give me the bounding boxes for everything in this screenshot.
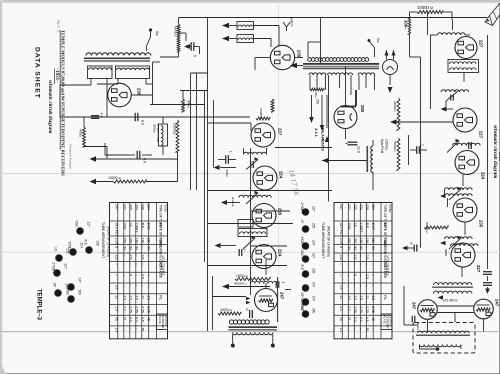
svg-text:–: – bbox=[353, 285, 357, 287]
svg-text:250: 250 bbox=[129, 238, 133, 244]
label DATA SHEET bbox=[34, 47, 41, 99]
svg-text:190: 190 bbox=[359, 238, 363, 244]
svg-text:8.0: 8.0 bbox=[143, 158, 147, 163]
fold crease horizontal 3 / page edge bbox=[0, 331, 500, 333]
svg-text:TEMPLE MODELS 87,88,89 and 94: TEMPLE MODELS 87,88,89 and 94 SUPERHETER… bbox=[61, 30, 66, 176]
svg-text:5: 5 bbox=[353, 274, 357, 276]
capacitor C14 bbox=[412, 316, 420, 331]
T2 secondary a bbox=[309, 73, 326, 75]
tube V4 224 bbox=[253, 166, 284, 190]
svg-text:20000 ω: 20000 ω bbox=[220, 308, 233, 312]
T2 secondary c bbox=[358, 73, 375, 75]
wire bus x250 bbox=[250, 148, 252, 295]
svg-text:10 WATT FUSE: 10 WATT FUSE bbox=[156, 124, 160, 143]
capacitor C5 1. bbox=[218, 151, 236, 164]
svg-text:DATA SHEET: DATA SHEET bbox=[34, 47, 41, 99]
scanner edge top bbox=[0, 0, 500, 3]
speaker winding bbox=[420, 345, 461, 351]
svg-text:•25 MEG: •25 MEG bbox=[443, 299, 458, 303]
svg-text:–: – bbox=[365, 246, 369, 248]
fold crease horizontal 1 bbox=[2, 173, 500, 175]
wire bus x330 bbox=[321, 18, 329, 202]
svg-text:TUBE: TUBE bbox=[164, 204, 168, 212]
wire V8 top thick bbox=[341, 90, 356, 107]
svg-text:235: 235 bbox=[312, 223, 316, 229]
svg-text:2.35: 2.35 bbox=[135, 306, 139, 313]
IF transformer IF3 bbox=[440, 237, 478, 246]
svg-text:259: 259 bbox=[316, 99, 320, 105]
svg-text:235: 235 bbox=[66, 249, 70, 255]
svg-text:I.F.: I.F. bbox=[353, 223, 357, 227]
svg-text:8: 8 bbox=[114, 246, 118, 248]
resistor R7 15000w bbox=[235, 274, 270, 281]
svg-text:280: 280 bbox=[312, 308, 316, 314]
coil L1 primary bbox=[86, 53, 151, 56]
svg-text:227: 227 bbox=[476, 265, 481, 273]
svg-text:224: 224 bbox=[135, 204, 139, 210]
svg-text:B’ST: B’ST bbox=[371, 223, 375, 230]
svg-text:–: – bbox=[347, 274, 351, 276]
choke electrolytic 2000w bbox=[153, 124, 168, 146]
svg-text:–: – bbox=[123, 263, 127, 265]
svg-text:.1: .1 bbox=[421, 143, 425, 146]
svg-text:224: 224 bbox=[279, 171, 284, 179]
svg-text:–: – bbox=[114, 274, 118, 276]
svg-text:OUTPUT: OUTPUT bbox=[389, 316, 393, 327]
svg-text:TEMPLE–3: TEMPLE–3 bbox=[36, 289, 42, 321]
trimmer VC3 bbox=[449, 236, 462, 249]
table 1 grid (tube voltages) bbox=[110, 203, 168, 339]
wire T4 right rail bbox=[277, 277, 279, 322]
svg-text:227: 227 bbox=[312, 253, 316, 259]
svg-text:GRID: GRID bbox=[383, 246, 387, 255]
svg-text:1ⁱᵗDET: 1ⁱᵗDET bbox=[359, 223, 364, 233]
svg-text:500ω: 500ω bbox=[225, 170, 229, 178]
handwritten model number bbox=[56, 19, 61, 33]
wire bus x430 bbox=[430, 35, 432, 109]
resistor R5 volume 50000w bbox=[174, 24, 180, 52]
svg-text:–: – bbox=[359, 263, 363, 265]
svg-text:Switch: Switch bbox=[290, 17, 294, 27]
svg-text:30ω: 30ω bbox=[314, 92, 318, 98]
svg-text:2.05: 2.05 bbox=[339, 238, 343, 245]
tube V11 224 bbox=[455, 151, 486, 180]
svg-text:227: 227 bbox=[64, 264, 68, 270]
svg-text:–: – bbox=[347, 328, 351, 330]
svg-text:–: – bbox=[339, 274, 343, 276]
wire V1 plate right bbox=[131, 94, 152, 96]
coil L2 secondary box bbox=[88, 66, 113, 79]
svg-text:2.35: 2.35 bbox=[147, 306, 151, 313]
resistor R2 15000w bottom-left bbox=[90, 176, 178, 184]
trimmer VC2 bbox=[449, 187, 462, 200]
svg-text:REC: REC bbox=[66, 289, 70, 296]
svg-text:224: 224 bbox=[481, 172, 486, 180]
tube V3 227 bbox=[251, 123, 283, 147]
scanner corner bottom-left bbox=[0, 362, 6, 374]
filament rail bottom bbox=[437, 312, 473, 314]
antenna Y bbox=[283, 17, 294, 31]
wire y123 to V3 bbox=[208, 123, 252, 131]
field coil FC bbox=[371, 140, 373, 178]
wire T2 top left bbox=[308, 42, 320, 57]
label spkr field bbox=[380, 139, 389, 153]
svg-text:50000ω: 50000ω bbox=[425, 222, 429, 233]
svg-text:227: 227 bbox=[479, 131, 484, 139]
choke box CB1 bbox=[237, 22, 254, 30]
capacitor C3 8.0 bbox=[128, 151, 152, 163]
svg-text:A L L: A L L bbox=[314, 128, 319, 138]
svg-text:247: 247 bbox=[495, 299, 500, 307]
capacitor C13 .1 bbox=[410, 143, 427, 154]
svg-text:90: 90 bbox=[135, 246, 139, 250]
tube V5 235 bbox=[252, 204, 283, 228]
ground arrow G3 bbox=[215, 243, 237, 248]
svg-text:45: 45 bbox=[114, 317, 118, 321]
svg-text:–: – bbox=[371, 285, 375, 287]
svg-text:–: – bbox=[135, 274, 139, 276]
coil L11 with trimmer bbox=[447, 139, 480, 153]
svg-text:235: 235 bbox=[297, 50, 302, 58]
svg-text:2.2: 2.2 bbox=[347, 306, 351, 311]
wire grid lead tube V1 bbox=[106, 86, 108, 117]
svg-text:235: 235 bbox=[353, 204, 357, 210]
svg-text:2.5: 2.5 bbox=[141, 255, 145, 260]
wire y289 bbox=[285, 289, 291, 291]
svg-text:210: 210 bbox=[114, 255, 118, 261]
wire bus x202 bbox=[204, 91, 206, 263]
tube V7 247 bbox=[255, 289, 285, 312]
power transformer T2 arrow bbox=[290, 63, 303, 68]
svg-text:90: 90 bbox=[129, 246, 133, 250]
svg-text:8.0: 8.0 bbox=[141, 120, 145, 125]
svg-text:190: 190 bbox=[365, 238, 369, 244]
svg-text:I.F.: I.F. bbox=[129, 223, 133, 227]
svg-text:90: 90 bbox=[147, 246, 151, 250]
wire y160b bbox=[372, 178, 374, 190]
tube V9 227 bbox=[455, 37, 484, 59]
svg-text:–: – bbox=[141, 285, 145, 287]
svg-text:45: 45 bbox=[147, 317, 151, 321]
svg-text:247: 247 bbox=[78, 278, 82, 284]
pilot lamp ground bbox=[388, 75, 393, 94]
coil L7 bbox=[238, 229, 267, 250]
svg-text:2.5: 2.5 bbox=[339, 306, 343, 311]
wire R4 bottom bbox=[177, 152, 179, 182]
svg-text:227: 227 bbox=[87, 222, 91, 228]
svg-text:90: 90 bbox=[347, 246, 351, 250]
svg-text:2.35: 2.35 bbox=[365, 306, 369, 313]
svg-text:190: 190 bbox=[141, 238, 145, 244]
filament rail top bbox=[437, 305, 473, 307]
svg-text:9.0: 9.0 bbox=[135, 317, 139, 322]
svg-text:2.5: 2.5 bbox=[359, 296, 363, 301]
svg-text:227: 227 bbox=[278, 128, 283, 136]
svg-text:–: – bbox=[135, 285, 139, 287]
svg-text:9.0: 9.0 bbox=[359, 317, 363, 322]
wire bus x196 bbox=[196, 73, 198, 190]
svg-text:236: 236 bbox=[141, 204, 145, 210]
table 1 cell text bbox=[114, 204, 168, 332]
scanner edge left bbox=[0, 0, 3, 374]
svg-text:4.0: 4.0 bbox=[100, 113, 104, 118]
svg-text:–: – bbox=[371, 263, 375, 265]
svg-text:–: – bbox=[147, 328, 151, 330]
wire y265 bbox=[208, 265, 288, 267]
svg-text:280: 280 bbox=[78, 290, 82, 296]
svg-text:OSC: OSC bbox=[75, 221, 79, 229]
coil L5 bbox=[244, 148, 267, 155]
wire y202 arrow bbox=[221, 197, 240, 207]
wire CB2 to V2 bbox=[254, 39, 272, 48]
svg-text:REC: REC bbox=[300, 305, 304, 312]
svg-text:FIL.: FIL. bbox=[159, 295, 163, 301]
svg-text:–: – bbox=[147, 285, 151, 287]
svg-text:235: 235 bbox=[479, 220, 484, 228]
svg-text:21: 21 bbox=[114, 296, 118, 300]
svg-text:R.F.: R.F. bbox=[141, 223, 145, 229]
wire v x408 bbox=[408, 135, 410, 165]
wire choke leads bbox=[162, 117, 164, 155]
svg-text:236: 236 bbox=[312, 268, 316, 274]
svg-text:21: 21 bbox=[141, 296, 145, 300]
svg-text:2.5: 2.5 bbox=[347, 296, 351, 301]
tube V6 224 bbox=[252, 245, 283, 269]
ground arrow R1 bbox=[84, 147, 178, 162]
wire y155 left bbox=[105, 143, 128, 155]
tube V14 247 bbox=[412, 300, 438, 320]
svg-text:•1: •1 bbox=[245, 308, 249, 311]
ground arrow G5 bbox=[0, 0, 1, 1]
wire bus x345b bbox=[345, 66, 347, 105]
svg-text:5: 5 bbox=[129, 274, 133, 276]
svg-text:280: 280 bbox=[360, 105, 365, 113]
power transformer T2 primary bbox=[308, 58, 369, 62]
tube V2 235 bbox=[270, 45, 301, 69]
table 2 cell text bbox=[339, 204, 393, 332]
wire y211 bbox=[251, 210, 290, 212]
tube layout dots (chassis) left bbox=[52, 221, 100, 303]
svg-text:247: 247 bbox=[114, 204, 118, 210]
capacitor C7 .1 bbox=[276, 281, 285, 288]
pilot lamp arrows bbox=[385, 50, 396, 60]
pilot lamp bbox=[383, 60, 398, 75]
svg-text:90: 90 bbox=[371, 246, 375, 250]
svg-text:12.0: 12.0 bbox=[357, 146, 361, 153]
wire V7 top bbox=[265, 260, 267, 289]
svg-text:(REAR OF CHASSIS): (REAR OF CHASSIS) bbox=[327, 226, 331, 257]
svg-text:3.0: 3.0 bbox=[353, 317, 357, 322]
wire y73 bbox=[191, 72, 208, 74]
resistor R12 20000w bbox=[393, 98, 400, 130]
svg-text:260: 260 bbox=[147, 238, 151, 244]
svg-text:250: 250 bbox=[353, 238, 357, 244]
svg-text:schematic circuit diagram: schematic circuit diagram bbox=[47, 80, 52, 133]
svg-text:2.5: 2.5 bbox=[365, 255, 369, 260]
svg-text:–: – bbox=[129, 285, 133, 287]
svg-text:–: – bbox=[123, 255, 127, 257]
ground arrow G4 bbox=[441, 107, 454, 112]
choke box CB3 bbox=[238, 220, 253, 228]
svg-text:–: – bbox=[135, 263, 139, 265]
svg-text:–: – bbox=[359, 274, 363, 276]
svg-text:–: – bbox=[147, 263, 151, 265]
svg-text:2.5: 2.5 bbox=[147, 296, 151, 301]
label ALL FILAMENTS bbox=[314, 99, 326, 151]
wire v x60 low bbox=[59, 104, 61, 117]
svg-text:2.05: 2.05 bbox=[114, 238, 118, 245]
wire y246 bbox=[251, 245, 287, 247]
svg-text:2.4: 2.4 bbox=[114, 328, 118, 333]
svg-text:190: 190 bbox=[135, 238, 139, 244]
IF transformer box IF1 bbox=[448, 60, 479, 73]
wire bus x190 bbox=[190, 73, 192, 190]
svg-text:3.5: 3.5 bbox=[114, 285, 118, 290]
svg-text:247: 247 bbox=[280, 292, 285, 300]
title TEMPLE MODELS bbox=[60, 30, 65, 176]
svg-text:250: 250 bbox=[347, 238, 351, 244]
T2 leads a bbox=[310, 75, 325, 90]
capacitor C1 4.0 bbox=[91, 113, 104, 119]
svg-text:21: 21 bbox=[339, 296, 343, 300]
coil L8 bbox=[251, 281, 277, 283]
tube V12 235 bbox=[453, 198, 484, 228]
svg-text:Sw: Sw bbox=[376, 38, 380, 43]
svg-text:400000 ω: 400000 ω bbox=[234, 282, 248, 286]
signal arrow A2 bbox=[222, 36, 237, 41]
svg-text:2.35: 2.35 bbox=[371, 306, 375, 313]
svg-text:–: – bbox=[123, 274, 127, 276]
signal arrow A1 bbox=[222, 23, 237, 28]
svg-text:.1: .1 bbox=[282, 281, 286, 284]
svg-text:21: 21 bbox=[123, 317, 127, 321]
resistor R1 400w bbox=[79, 127, 86, 147]
svg-text:schematic circuit diagram: schematic circuit diagram bbox=[492, 125, 497, 178]
output transformer T4 primary bbox=[229, 320, 269, 324]
svg-text:90: 90 bbox=[359, 246, 363, 250]
svg-text:3.5: 3.5 bbox=[365, 274, 369, 279]
svg-text:.5: .5 bbox=[409, 242, 413, 245]
wire R9 right bbox=[451, 12, 453, 20]
svg-text:247: 247 bbox=[412, 302, 417, 310]
svg-text:2.5: 2.5 bbox=[135, 296, 139, 301]
wire CB1 to V2 bbox=[254, 26, 280, 47]
IF transformer IF2 bbox=[440, 188, 472, 199]
svg-text:Sw: Sw bbox=[155, 31, 159, 36]
speaker dashed box bbox=[413, 323, 475, 354]
svg-text:Printed in Canada: Printed in Canada bbox=[69, 145, 73, 169]
wire right rail x487 bbox=[487, 35, 489, 269]
capacitor C4 .5 with ground bbox=[184, 42, 200, 57]
svg-text:OSC: OSC bbox=[347, 223, 351, 231]
variable capacitor VC1 bbox=[246, 157, 259, 169]
T2 leads b bbox=[329, 75, 352, 95]
wire bus x207 bbox=[207, 18, 209, 332]
wire y160 rect bbox=[322, 158, 368, 163]
svg-text:90: 90 bbox=[123, 246, 127, 250]
wire R1 top bbox=[83, 117, 85, 127]
svg-text:236: 236 bbox=[96, 241, 100, 247]
svg-text:–: – bbox=[359, 328, 363, 330]
svg-text:2.35: 2.35 bbox=[129, 306, 133, 313]
svg-text:(REAR OF CHASSIS): (REAR OF CHASSIS) bbox=[107, 226, 111, 257]
wire R3 top bbox=[182, 91, 184, 100]
svg-text:–: – bbox=[365, 263, 369, 265]
svg-text:4.5: 4.5 bbox=[141, 317, 145, 322]
svg-text:–: – bbox=[359, 255, 363, 257]
tube V1 236 bbox=[108, 83, 142, 107]
resistor R9 10000w bbox=[415, 11, 452, 14]
capacitor C10 12.0 bbox=[346, 142, 361, 153]
svg-text:TUBE ARRANGEMENT: TUBE ARRANGEMENT bbox=[321, 222, 325, 258]
fold crease horizontal 2 bbox=[2, 251, 500, 253]
capacitor C9 bbox=[239, 249, 247, 256]
grid resistor R6 bbox=[256, 109, 270, 120]
resistor R13 50000w bbox=[393, 138, 400, 170]
svg-text:TUBE: TUBE bbox=[388, 204, 392, 212]
tube layout dots (chassis) middle bbox=[300, 203, 316, 318]
svg-text:2.5: 2.5 bbox=[353, 296, 357, 301]
svg-text:–: – bbox=[371, 328, 375, 330]
svg-text:OSC: OSC bbox=[123, 223, 127, 231]
svg-text:2.35: 2.35 bbox=[353, 306, 357, 313]
svg-text:2ⁿᵇDET: 2ⁿᵇDET bbox=[300, 203, 304, 214]
svg-text:2.35: 2.35 bbox=[141, 306, 145, 313]
output transformer T4 core bbox=[229, 326, 278, 330]
title schematic circuit diagram bbox=[47, 80, 52, 133]
wire arrow 400000w bbox=[222, 282, 270, 290]
wire y190 bbox=[208, 190, 333, 192]
svg-text:VOLTAGES: VOLTAGES bbox=[386, 256, 390, 277]
right margin schematic circuit diagram bbox=[492, 125, 500, 178]
svg-text:–: – bbox=[347, 255, 351, 257]
wire V2 plate bbox=[295, 57, 303, 59]
svg-text:50000ω: 50000ω bbox=[393, 141, 397, 152]
svg-text:10000ω: 10000ω bbox=[385, 139, 389, 151]
resistor R11 50000w bbox=[424, 222, 448, 233]
svg-text:224: 224 bbox=[312, 240, 316, 246]
capacitor C11 .5 bbox=[402, 242, 417, 252]
wire h y104 bbox=[150, 104, 205, 106]
svg-text:50: 50 bbox=[365, 328, 369, 332]
svg-text:GRID: GRID bbox=[159, 246, 163, 255]
wire y90 bbox=[180, 90, 208, 92]
svg-text:224: 224 bbox=[278, 249, 283, 257]
svg-text:224: 224 bbox=[147, 204, 151, 210]
label TEMPLE-3 bbox=[36, 289, 42, 321]
svg-text:15000ω: 15000ω bbox=[173, 123, 177, 135]
svg-text:–: – bbox=[123, 328, 127, 330]
wire x152 top bbox=[153, 61, 161, 63]
svg-text:90: 90 bbox=[353, 246, 357, 250]
ground arrow G2 bbox=[214, 165, 237, 178]
capacitor C12 bbox=[483, 272, 492, 294]
svg-text:300ω: 300ω bbox=[187, 100, 191, 108]
svg-text:–: – bbox=[141, 263, 145, 265]
wire top bus y17.5 bbox=[179, 17, 488, 19]
svg-text:224: 224 bbox=[80, 243, 84, 249]
svg-text:50000ω: 50000ω bbox=[174, 26, 178, 37]
svg-text:B’ST: B’ST bbox=[147, 223, 151, 230]
svg-text:–: – bbox=[371, 255, 375, 257]
svg-text:R.F.: R.F. bbox=[300, 265, 304, 271]
wire C4 tap bbox=[179, 33, 200, 54]
tube V10 227 bbox=[453, 108, 484, 139]
tube V13 227 bbox=[451, 243, 481, 273]
pencil bbox=[485, 3, 500, 26]
svg-text:45: 45 bbox=[339, 317, 343, 321]
svg-text:FIL.: FIL. bbox=[383, 295, 387, 301]
